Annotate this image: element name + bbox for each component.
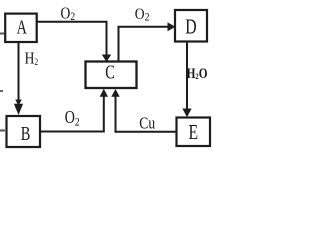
wire B to C [40, 89, 108, 132]
box B [7, 116, 41, 147]
box C [86, 60, 137, 88]
svg-text:Cu: Cu [139, 114, 155, 133]
svg-text:H2O: H2O [187, 65, 208, 82]
wire E to C [111, 89, 176, 132]
box D [175, 10, 207, 42]
box E [177, 118, 211, 147]
svg-text:O2: O2 [135, 6, 150, 24]
scan speck left of A [0, 33, 4, 35]
wire C to D [119, 22, 176, 61]
svg-text:B: B [21, 122, 31, 145]
scan speck left of B [0, 130, 5, 132]
svg-text:D: D [185, 15, 196, 39]
scan speck left margin [0, 90, 3, 92]
svg-text:O2: O2 [61, 4, 76, 23]
box A [5, 14, 37, 42]
svg-text:C: C [105, 60, 115, 83]
svg-text:O2: O2 [65, 109, 80, 129]
svg-text:H2: H2 [25, 49, 39, 68]
svg-text:A: A [17, 15, 28, 38]
wire A to C [37, 22, 112, 62]
wire D to E [182, 42, 191, 118]
svg-text:E: E [188, 121, 198, 145]
wire A to B [14, 42, 23, 115]
